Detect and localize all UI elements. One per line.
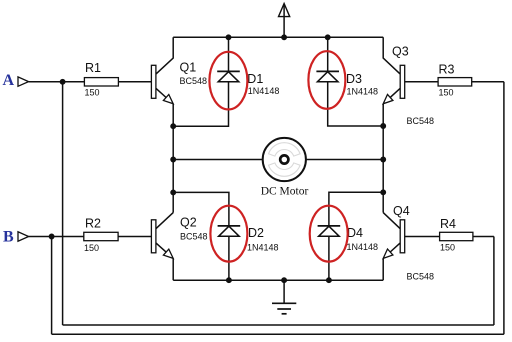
svg-text:R4: R4 <box>440 217 456 231</box>
wire: motor right lead <box>306 159 383 161</box>
junction: left column / D2 rail <box>171 190 175 194</box>
junction: ground rail / D4 <box>327 278 331 282</box>
transistor Q2 (NPN) <box>151 213 173 259</box>
wire: Q3 base to R3 <box>405 81 438 83</box>
highlight ellipse around D4 <box>310 206 348 262</box>
junction: ground rail / ground stem <box>282 278 286 282</box>
svg-text:150: 150 <box>84 243 99 253</box>
diode D3 (cathode bar + triangle) <box>316 71 339 81</box>
wire: D1 branch (top rail to left emitter rail) <box>173 37 228 126</box>
wire: A terminal to R1 <box>29 81 85 83</box>
svg-text:BC548: BC548 <box>180 232 208 242</box>
svg-text:R2: R2 <box>85 217 101 231</box>
svg-text:1N4148: 1N4148 <box>347 242 379 252</box>
junction: right column / D4 rail <box>381 190 385 194</box>
wire: right column Q3 emitter / Q4 collector <box>382 104 384 213</box>
junction: top rail / D3 <box>326 35 330 39</box>
DC motor M1 <box>263 138 306 181</box>
junction: right column / motor rail <box>381 157 385 161</box>
svg-text:DC Motor: DC Motor <box>261 185 309 197</box>
power symbol +V <box>279 4 290 38</box>
wire: A feedback bottom run <box>63 324 494 326</box>
transistor Q3 (NPN, mirrored) <box>383 37 405 104</box>
svg-text:B: B <box>3 228 14 245</box>
wire: Q4 emitter down to ground rail <box>382 258 384 280</box>
resistor R2 <box>84 232 118 240</box>
highlight ellipse around D1 <box>209 52 247 110</box>
svg-text:150: 150 <box>85 88 100 98</box>
wire: node A feedback down riser <box>62 82 64 325</box>
wire: node B feedback down riser <box>51 237 53 335</box>
wire: R2 to Q2 base <box>118 236 151 238</box>
svg-text:1N4148: 1N4148 <box>247 242 279 252</box>
resistor R4 <box>440 232 473 240</box>
svg-text:D2: D2 <box>248 226 264 240</box>
svg-text:BC548: BC548 <box>180 76 208 86</box>
junction: top rail / D1 <box>226 35 230 39</box>
diode D1 (cathode bar + triangle) <box>217 71 240 81</box>
resistor R3 <box>438 78 472 86</box>
wire: D2 branch (Q2 collector rail down to ground rail) <box>173 192 229 280</box>
svg-text:D1: D1 <box>247 72 263 86</box>
wire: Q2 emitter down to ground rail <box>172 258 174 280</box>
svg-text:Q1: Q1 <box>180 61 197 75</box>
junction: ground rail / D2 <box>227 278 231 282</box>
wire: D4 branch (Q4 collector rail down to ground rail) <box>329 192 383 280</box>
svg-text:Q3: Q3 <box>392 45 409 59</box>
svg-text:150: 150 <box>440 243 455 253</box>
wire: A feedback right riser <box>493 237 495 326</box>
highlight ellipse around D3 <box>308 51 345 109</box>
svg-text:150: 150 <box>439 88 454 98</box>
ground symbol <box>272 280 296 314</box>
input terminal B <box>18 232 29 241</box>
wire: B feedback bottom run <box>52 333 504 335</box>
svg-text:R1: R1 <box>85 61 101 75</box>
svg-text:BC548: BC548 <box>407 272 435 282</box>
junction: top rail / power stem <box>282 35 286 39</box>
svg-text:BC548: BC548 <box>407 116 435 126</box>
wire: left column Q1 emitter / Q2 collector <box>172 104 174 213</box>
wire: R1 to Q1 base <box>118 81 151 83</box>
wire: motor left lead <box>173 159 263 161</box>
wire: +V top rail <box>173 36 383 38</box>
wire: B feedback right riser <box>503 82 505 334</box>
wire: Q4 base to R4 <box>405 236 440 238</box>
svg-text:Q2: Q2 <box>180 215 197 229</box>
junction: node B <box>49 234 53 238</box>
wire: D3 branch (top rail to right emitter rail) <box>328 37 384 126</box>
svg-text:1N4148: 1N4148 <box>347 86 379 96</box>
svg-text:Q4: Q4 <box>393 204 410 218</box>
wire: ground rail <box>173 279 383 281</box>
wire: B feedback to R3 <box>472 81 504 83</box>
wire: B terminal to R2 <box>29 236 84 238</box>
svg-text:D3: D3 <box>346 72 362 86</box>
highlight ellipse around D2 <box>210 206 247 262</box>
junction: left column / left emitter rail <box>171 124 175 128</box>
resistor R1 <box>84 78 118 86</box>
wire: A feedback to R4 <box>473 236 494 238</box>
svg-text:1N4148: 1N4148 <box>248 86 280 96</box>
svg-text:A: A <box>3 72 15 89</box>
transistor Q1 (NPN) <box>151 37 173 104</box>
junction: node A <box>60 80 64 84</box>
junction: left column / motor rail <box>171 157 175 161</box>
svg-text:D4: D4 <box>347 226 363 240</box>
svg-text:R3: R3 <box>439 63 455 77</box>
diode D2 (cathode bar + triangle) <box>218 226 241 236</box>
transistor Q4 (NPN, mirrored) <box>383 213 405 259</box>
input terminal A <box>18 77 29 86</box>
diode D4 (cathode bar + triangle) <box>318 226 341 236</box>
junction: right column / right emitter rail <box>381 124 385 128</box>
